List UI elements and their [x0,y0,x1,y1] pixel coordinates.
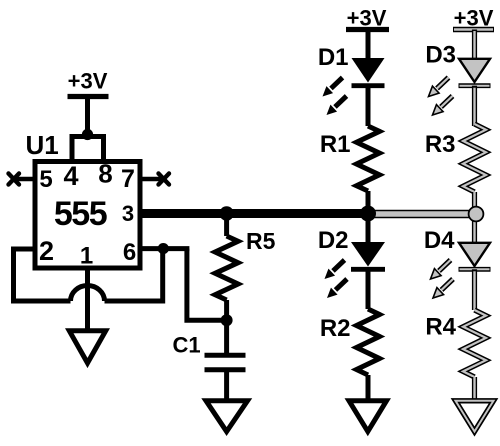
svg-text:7: 7 [121,165,135,193]
wire pin 6 to C1 node [187,249,227,321]
wire +3V to pins 4/8 bracket [85,97,90,136]
D2 emission arrows [325,260,348,298]
wire bottom run to pin 6 riser [105,249,163,301]
svg-text:1: 1 [80,243,93,270]
junction dot output/chain 1 [360,206,376,222]
wire R1 to output node [366,191,371,214]
wire D3 to R3 (gray) [472,86,477,126]
svg-text:3: 3 [122,201,134,226]
svg-text:C1: C1 [173,333,201,358]
junction dot at bracket [82,129,93,140]
wire R2 to ground [366,375,371,400]
D4 emission arrows (gray) [431,260,454,298]
svg-text:+3V: +3V [347,6,387,31]
wire C1 bottom lead [224,370,229,400]
resistor R5 [215,236,238,300]
svg-text:D2: D2 [318,227,349,254]
svg-text:2: 2 [39,236,54,266]
wire hop over pin 1 wire [71,285,105,301]
wire R5 top lead [224,214,229,237]
wire D1 to R1 [366,86,371,126]
no-connect X on pin 7 [159,174,170,185]
wire rail to D3 (gray) [472,30,477,61]
power rail bar (LED chain 1) [346,27,389,32]
wire pin 5 stub [14,177,35,182]
power rail bar (LED chain 2, gray) [453,27,494,32]
svg-text:+3V: +3V [68,69,108,94]
D3 emission arrows (gray) [429,78,453,116]
wire pin 2 loop to bottom [14,249,71,301]
resistor R1 [357,126,380,191]
ground under R2 [349,401,387,432]
wire R4 to ground (gray) [472,377,477,400]
power rail bar (555 supply) [68,94,109,99]
LED D2 [351,242,385,269]
svg-text:R5: R5 [246,228,276,254]
resistor R2 [357,309,380,375]
wire output gray extension to second LED chain [372,210,476,219]
wire pin 3 output (thick) [140,209,372,218]
ground under C1 [206,401,248,432]
ground under R4 (gray) [456,401,494,432]
wire D4 to R4 (gray) [472,269,477,310]
no-connect X on pin 5 [9,174,20,185]
svg-text:5: 5 [39,166,52,193]
LED D1 [352,58,385,86]
LED D4 (gray) [459,243,491,269]
svg-text:R4: R4 [425,314,456,341]
wire pin 6 stub [140,246,189,251]
op-amp U1 555 timer body [35,162,140,269]
svg-text:D4: D4 [424,227,455,254]
junction dot pin 6 [158,243,169,254]
ground under pin 1 [69,331,105,363]
svg-text:555: 555 [54,195,107,233]
wire pin 1 to ground [85,268,90,330]
svg-text:D3: D3 [425,42,456,69]
wire D2 to R2 [366,269,371,309]
resistor R4 (gray) [463,310,486,377]
svg-text:D1: D1 [318,44,349,71]
resistor R3 (gray) [463,124,486,192]
svg-text:R1: R1 [320,131,351,158]
svg-text:R3: R3 [425,131,456,158]
wire node to D2 [366,214,371,245]
wire rail to D1 [366,30,371,61]
junction dot chain 2 (gray) [469,207,484,222]
svg-text:U1: U1 [26,130,59,160]
svg-text:8: 8 [98,159,112,189]
junction dot R5 bottom [221,314,233,326]
wire pin 7 stub [140,177,163,182]
wire R5 bottom lead [224,300,229,320]
capacitor C1 [205,355,246,370]
svg-text:4: 4 [63,161,78,191]
wire R3 to node (gray) [472,192,477,214]
D1 emission arrows [323,78,347,116]
svg-text:6: 6 [123,239,136,266]
svg-text:+3V: +3V [454,6,494,31]
wire bracket joining pin 4 and pin 8 [72,137,104,162]
svg-text:R2: R2 [320,315,351,342]
wire C1 top lead [224,320,229,353]
junction dot R5 top [219,206,233,220]
LED D3 (gray) [459,59,491,86]
wire node to D4 (gray) [472,214,477,244]
